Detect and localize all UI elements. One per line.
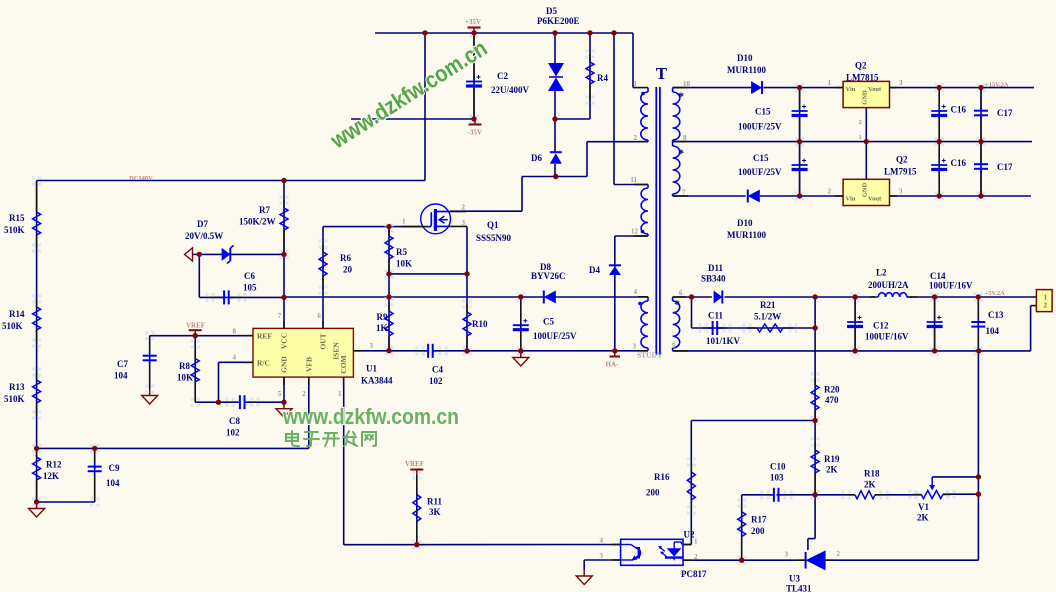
svg-text:C15: C15 [753,153,769,163]
svg-text:100UF/25V: 100UF/25V [738,122,782,132]
svg-text:Q1: Q1 [487,220,499,230]
svg-text:C5: C5 [543,317,554,327]
svg-text:+35V: +35V [465,18,481,26]
svg-text:100UF/25V: 100UF/25V [738,167,782,177]
svg-text:LM7915: LM7915 [884,167,917,177]
svg-text:1: 1 [859,134,862,141]
svg-text:3: 3 [633,343,637,351]
svg-text:3: 3 [899,188,903,196]
svg-text:10K: 10K [396,259,412,269]
svg-text:D4: D4 [589,265,600,275]
svg-text:C7: C7 [117,359,128,369]
svg-text:Vin: Vin [846,86,856,93]
svg-text:*: * [678,146,684,160]
svg-text:R14: R14 [9,309,25,319]
svg-text:1: 1 [634,80,638,88]
svg-text:D5: D5 [546,6,557,16]
svg-text:22U/400V: 22U/400V [491,85,530,95]
svg-text:R21: R21 [760,300,776,310]
svg-text:2: 2 [694,553,698,561]
svg-text:4: 4 [233,354,237,362]
svg-text:VREF: VREF [405,460,424,468]
svg-text:12K: 12K [43,471,59,481]
svg-text:COM: COM [339,355,348,373]
svg-text:6: 6 [679,289,683,297]
svg-text:REF: REF [257,332,272,341]
svg-text:200: 200 [646,488,660,498]
svg-text:R17: R17 [751,515,767,525]
svg-text:BYV26C: BYV26C [531,271,566,281]
svg-text:C2: C2 [497,71,508,81]
svg-text:4: 4 [600,537,604,545]
svg-text:C13: C13 [988,310,1004,320]
svg-text:U3: U3 [789,574,800,584]
svg-text:C17: C17 [997,162,1013,172]
svg-text:OUT: OUT [319,333,328,349]
svg-text:3: 3 [899,79,903,87]
svg-text:R6: R6 [340,253,351,263]
svg-text:3: 3 [600,552,604,560]
svg-text:104: 104 [106,478,120,488]
svg-text:8: 8 [683,134,687,142]
svg-text:Q2: Q2 [855,61,867,71]
svg-text:+5V.2A: +5V.2A [985,290,1006,297]
svg-text:+15V.2A: +15V.2A [985,82,1009,89]
svg-text:10K: 10K [177,373,193,383]
svg-text:GND: GND [862,90,869,105]
svg-text:102: 102 [226,428,240,438]
svg-text:100UF/25V: 100UF/25V [533,331,577,341]
svg-text:R12: R12 [46,460,62,470]
svg-text:D6: D6 [531,153,542,163]
svg-text:STUDY: STUDY [637,351,663,360]
svg-text:R8: R8 [179,361,190,371]
svg-text:2K: 2K [917,513,929,523]
svg-text:C16: C16 [951,105,967,115]
svg-text:C8: C8 [229,416,240,426]
svg-text:3: 3 [370,342,374,350]
svg-text:C9: C9 [109,463,120,473]
svg-text:V1: V1 [918,502,929,512]
svg-text:R16: R16 [654,472,670,482]
svg-text:20: 20 [343,265,353,275]
svg-text:MUR1100: MUR1100 [727,65,766,75]
svg-text:C12: C12 [873,321,889,331]
svg-text:R20: R20 [824,385,840,395]
svg-text:200UH/2A: 200UH/2A [868,280,909,290]
svg-text:DC140V: DC140V [129,175,153,182]
svg-text:C10: C10 [770,462,786,472]
svg-text:Q2: Q2 [896,155,908,165]
svg-text:MUR1100: MUR1100 [727,230,766,240]
svg-text:5: 5 [672,342,676,350]
svg-text:R19: R19 [824,454,840,464]
svg-text:C11: C11 [708,311,724,321]
svg-text:SSS5N90: SSS5N90 [476,233,512,243]
svg-text:1K: 1K [376,323,388,333]
svg-text:20V/0.5W: 20V/0.5W [185,231,223,241]
svg-text:R4: R4 [597,73,608,83]
svg-text:100UF/16V: 100UF/16V [929,281,973,291]
svg-text:-35V: -35V [468,129,482,137]
svg-text:HA-: HA- [606,361,620,369]
svg-text:C4: C4 [432,365,443,375]
svg-text:100UF/16V: 100UF/16V [865,332,909,342]
svg-text:P6KE200E: P6KE200E [537,16,580,26]
svg-text:TL431: TL431 [786,584,812,592]
svg-text:VFB: VFB [304,357,313,372]
svg-text:R5: R5 [396,247,407,257]
svg-text:C6: C6 [244,271,255,281]
svg-text:Vout: Vout [868,196,882,203]
svg-text:3K: 3K [429,507,441,517]
svg-text:*: * [674,297,680,311]
svg-text:R13: R13 [9,382,25,392]
svg-text:Vout: Vout [868,86,882,93]
svg-text:C16: C16 [951,158,967,168]
svg-text:510K: 510K [4,225,25,235]
svg-text:D10: D10 [737,218,753,228]
svg-text:101/1KV: 101/1KV [706,336,741,346]
svg-text:D7: D7 [197,219,208,229]
svg-text:6: 6 [317,312,321,320]
svg-text:T: T [656,64,668,83]
svg-text:R9: R9 [377,312,388,322]
svg-text:102: 102 [429,376,443,386]
svg-text:SB340: SB340 [701,274,726,284]
svg-text:510K: 510K [4,394,25,404]
svg-text:3: 3 [785,551,789,559]
svg-text:1: 1 [402,218,406,226]
svg-text:D10: D10 [737,53,753,63]
svg-text:11: 11 [630,176,637,184]
svg-text:R11: R11 [427,497,443,507]
svg-text:10: 10 [683,80,691,88]
svg-text:www.dzkfw.com.cn: www.dzkfw.com.cn [282,404,459,429]
svg-text:2K: 2K [864,480,876,490]
svg-text:105: 105 [243,283,257,293]
svg-text:1: 1 [1044,294,1048,302]
svg-text:GND: GND [862,182,869,197]
svg-text:5: 5 [278,390,282,398]
svg-text:1: 1 [338,390,342,398]
svg-text:C17: C17 [997,108,1013,118]
svg-text:R10: R10 [472,319,488,329]
svg-text:2: 2 [828,188,832,196]
svg-text:150K/2W: 150K/2W [239,217,276,227]
svg-text:3: 3 [462,219,466,227]
svg-text:1: 1 [694,538,698,546]
svg-text:7: 7 [682,189,686,197]
svg-text:2: 2 [859,119,862,126]
svg-text:2: 2 [1044,302,1048,310]
svg-text:104: 104 [986,326,1000,336]
svg-text:470: 470 [825,395,839,405]
svg-text:1: 1 [828,79,832,87]
svg-text:Vin: Vin [846,196,856,203]
svg-text:7: 7 [278,312,282,320]
svg-text:8: 8 [233,328,237,336]
svg-text:2: 2 [837,550,841,558]
svg-text:R18: R18 [864,469,880,479]
svg-text:C15: C15 [755,107,771,117]
svg-text:12: 12 [631,228,639,236]
svg-text:C14: C14 [930,271,946,281]
svg-text:VREF: VREF [186,322,205,330]
svg-text:R15: R15 [9,213,25,223]
svg-text:*: * [678,89,684,103]
svg-text:PC817: PC817 [681,569,707,579]
svg-text:2: 2 [634,134,638,142]
svg-text:LM7815: LM7815 [846,73,879,83]
svg-text:103: 103 [770,473,784,483]
svg-text:L2: L2 [876,268,887,278]
svg-text:KA3844: KA3844 [361,376,393,386]
svg-text:5.1/2W: 5.1/2W [754,312,781,322]
svg-text:2K: 2K [826,465,838,475]
svg-text:R/C: R/C [257,358,270,367]
svg-text:2: 2 [302,390,306,398]
svg-text:R7: R7 [259,205,270,215]
svg-text:D11: D11 [708,263,724,273]
svg-text:104: 104 [114,371,128,381]
svg-text:VCC: VCC [280,333,289,349]
svg-text:510K: 510K [2,321,23,331]
svg-text:200: 200 [751,526,765,536]
svg-text:4: 4 [634,288,638,296]
svg-text:GND: GND [280,356,289,373]
svg-text:2: 2 [462,204,466,212]
svg-text:U1: U1 [366,364,377,374]
